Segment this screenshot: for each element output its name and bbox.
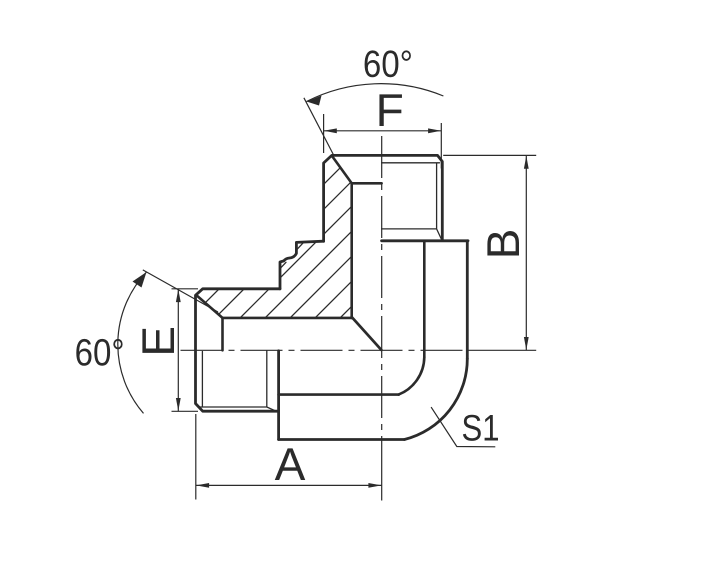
- B dim arrow top: [524, 156, 529, 169]
- F dim arrow left: [324, 128, 337, 133]
- A dim arrow left: [196, 483, 209, 488]
- left port bore end line: [221, 318, 224, 350]
- 60 left arc arrowhead: [133, 272, 147, 288]
- body outer corner arc: [404, 359, 467, 440]
- A dim arrow right: [368, 483, 381, 488]
- 60 deg left cone extension diagonal: [143, 270, 218, 312]
- F right extension line: [440, 123, 442, 169]
- horizontal centerline: [181, 349, 469, 351]
- B dimension line: [525, 155, 527, 350]
- F dimension line: [324, 130, 442, 132]
- left port outer profile: [196, 289, 281, 411]
- 60 deg top arc: [307, 84, 444, 102]
- E top extension line: [172, 288, 199, 290]
- E dimension line: [177, 289, 179, 412]
- label S1: [463, 415, 498, 441]
- horizontal centerline extension / B bottom extension: [468, 349, 536, 351]
- body bottom edge: [279, 438, 405, 441]
- A left extension line: [195, 414, 197, 500]
- label 60 deg left: [76, 339, 122, 366]
- label 60 deg top: [365, 50, 411, 77]
- inner silhouette corner arc: [399, 357, 425, 394]
- top port bore end line: [352, 182, 382, 185]
- S1 leader line: [431, 407, 495, 447]
- inner silhouette horizontal: [279, 393, 399, 396]
- top port bore left wall: [350, 183, 353, 318]
- body left face: [277, 351, 280, 440]
- B dim arrow bottom: [524, 337, 529, 350]
- 60 top arc arrowhead: [307, 96, 322, 106]
- left port cone section line: [197, 296, 222, 318]
- A dimension line: [196, 484, 382, 486]
- left port bore top wall: [223, 317, 352, 320]
- E bottom extension line: [172, 410, 199, 412]
- staircase chamfer tick 2: [280, 262, 286, 268]
- B top extension line: [443, 154, 536, 156]
- E dim arrow top: [176, 289, 181, 302]
- 60 deg left arc: [118, 272, 147, 413]
- staircase section outline: [280, 241, 324, 289]
- top port cone section line: [332, 156, 352, 183]
- vertical centerline: [381, 136, 383, 440]
- E dim arrow bottom: [176, 398, 181, 411]
- top port outer profile: [324, 155, 443, 241]
- 60 deg top cone extension diagonal: [304, 98, 334, 155]
- left port thread inner crest lines: [200, 351, 278, 412]
- label B rotated: [487, 231, 519, 255]
- inner silhouette vertical: [423, 242, 426, 357]
- staircase chamfer tick 1: [297, 243, 304, 250]
- F left extension line: [323, 114, 325, 153]
- label A: [275, 448, 306, 480]
- shoulder under top thread: [382, 239, 468, 242]
- vertical centerline lower solid / A right extension: [381, 440, 383, 501]
- top port thread inner crest lines: [382, 163, 442, 240]
- label F: [379, 94, 402, 126]
- body right edge: [466, 241, 469, 359]
- label E rotated: [142, 328, 174, 353]
- F dim arrow right: [428, 128, 441, 133]
- bore corner diagonal: [352, 317, 382, 350]
